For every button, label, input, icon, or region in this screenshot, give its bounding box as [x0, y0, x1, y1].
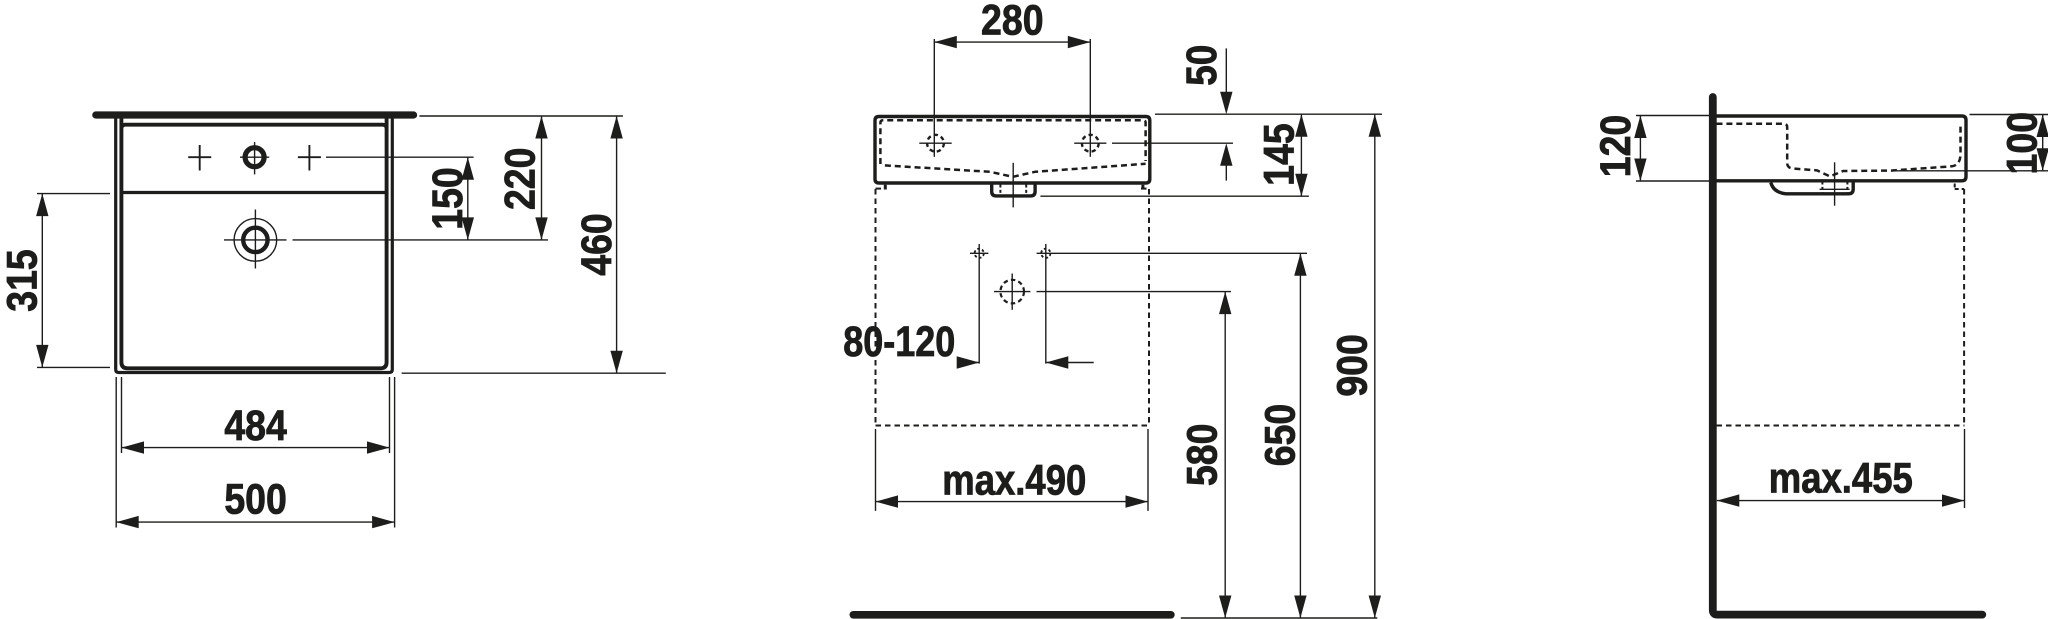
svg-text:484: 484 [224, 402, 287, 450]
floor extension line [1181, 617, 1378, 619]
extension line top right [419, 115, 623, 117]
basin side outline [1715, 116, 1967, 181]
floor line [853, 611, 1171, 619]
basin inner rim [121, 118, 386, 368]
drain trap inner dashed [1821, 182, 1823, 194]
wall and floor line [1713, 97, 1983, 615]
extension line from tap axis to 150 dimension [326, 156, 474, 158]
dimension max.455 [1717, 500, 1965, 502]
svg-text:120: 120 [1592, 115, 1640, 178]
dimension 460 [616, 116, 618, 373]
drain centerline side view [1834, 162, 1836, 205]
alternative tap position right (cross) [298, 156, 321, 158]
basin body outline [875, 117, 1150, 184]
dimension 484 extension lines [121, 377, 123, 453]
tap hole [245, 148, 264, 167]
svg-text:80-120: 80-120 [843, 318, 955, 366]
svg-text:50: 50 [1178, 45, 1226, 86]
tap deck front edge [123, 191, 385, 194]
dimension 220 [541, 116, 543, 240]
dimension 500 extension lines [115, 377, 117, 528]
drain centerline [1012, 163, 1014, 208]
svg-text:500: 500 [224, 476, 287, 524]
extension line basin top to 900 dimension [1155, 113, 1382, 115]
svg-text:580: 580 [1179, 424, 1227, 487]
svg-text:220: 220 [497, 148, 545, 211]
wall bracket stubs [884, 185, 887, 190]
svg-text:460: 460 [573, 213, 621, 276]
extension line siphon axis to 580 dimension [994, 291, 1030, 293]
wall fixing hole left [975, 249, 984, 258]
dimension 145 [1300, 114, 1302, 196]
dimension 500 [116, 521, 394, 523]
svg-text:150: 150 [424, 167, 472, 230]
extension line bottom right [402, 372, 666, 374]
svg-text:max.490: max.490 [942, 456, 1086, 504]
clearance box dashed right edge [1963, 189, 1965, 426]
basin inner bottom dashed [885, 164, 1146, 177]
dimension 315 [41, 194, 43, 368]
clearance dashed step [1954, 184, 1956, 190]
extension line drain housing to 145 dimension [1040, 195, 1309, 197]
svg-text:650: 650 [1257, 404, 1305, 467]
dimension 100 extension lines [1970, 114, 2048, 116]
dimension 900 [1374, 114, 1376, 618]
furniture clearance box dashed [876, 188, 885, 190]
dimension 150 [467, 157, 469, 240]
tap hole right dashed [1082, 135, 1099, 152]
extension line fixing holes to 650 dimension [1037, 252, 1307, 254]
extension line tap axis to 50 dimension [1074, 142, 1106, 144]
svg-text:max.455: max.455 [1769, 455, 1913, 503]
siphon dashed circle [1000, 280, 1024, 304]
dimension 50 [1225, 48, 1227, 92]
clearance box dashed bottom [1717, 425, 1965, 427]
wall line (back edge) [96, 111, 414, 118]
dimension max.455 extension line [1964, 429, 1966, 508]
svg-text:280: 280 [981, 0, 1044, 44]
dimension 120 extension lines [1636, 115, 1709, 117]
dimension 650 [1299, 253, 1301, 618]
dimension 315 extension lines [37, 193, 110, 195]
svg-text:100: 100 [1998, 112, 2046, 175]
svg-text:900: 900 [1329, 334, 1377, 397]
tap hole left dashed [927, 135, 944, 152]
drain housing inner dashed [999, 185, 1001, 195]
dimension 120 [1639, 116, 1641, 182]
dimension 580 [1224, 292, 1226, 618]
basin outer rim [116, 117, 393, 373]
drain trap outline [1771, 182, 1853, 194]
dimension 100 [2042, 115, 2044, 171]
dimension 80-120 [958, 362, 980, 364]
alternative tap position left (cross) [188, 156, 211, 158]
dimension 280 extension lines [933, 39, 935, 157]
basin inner rim dashed [880, 120, 1145, 164]
svg-text:145: 145 [1255, 123, 1303, 186]
basin interior dashed profile [1717, 124, 1961, 177]
dimension max.490 [875, 429, 877, 511]
drain hole [243, 228, 267, 252]
dimension 280 [934, 41, 1090, 43]
dimension 484 [122, 447, 390, 449]
drain housing [992, 183, 1035, 196]
extension line from drain axis to 220 dimension [224, 239, 287, 241]
svg-text:315: 315 [0, 249, 47, 312]
wall fixing hole right [1041, 249, 1050, 258]
